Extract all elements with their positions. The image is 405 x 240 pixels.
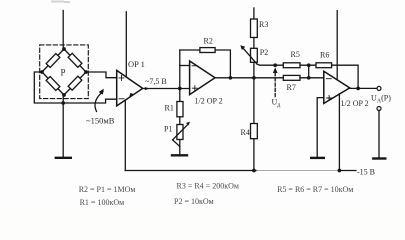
svg-text:R1: R1 bbox=[165, 104, 174, 113]
ground bridge bbox=[56, 157, 71, 159]
svg-text:OP 1: OP 1 bbox=[128, 59, 145, 69]
pin minus OP1 bbox=[119, 98, 124, 100]
pin minus U3 bbox=[326, 78, 331, 80]
arrow curved input adjust near OP1 bbox=[95, 92, 103, 112]
wire lower terminal to ground bbox=[378, 111, 380, 159]
svg-text:R1 = 100кОм: R1 = 100кОм bbox=[80, 198, 125, 207]
arrow P2 wiper bbox=[243, 49, 257, 64]
wire R3 to P2 bbox=[253, 38, 255, 49]
node junction R2 feedback on output bbox=[229, 76, 233, 80]
pin minus U2 bbox=[192, 65, 197, 67]
svg-text:P1: P1 bbox=[164, 125, 172, 134]
terminal output upper bbox=[377, 86, 381, 90]
pin plus OP1 bbox=[119, 75, 124, 80]
wire supply stub above U3 bbox=[336, 11, 338, 80]
wire P1 bottom lead to ground bbox=[179, 140, 181, 155]
wire node-X vertical (R2 left / U2 minus / R1 top) bbox=[179, 50, 181, 102]
arrow on OP1 lower edge bbox=[129, 93, 134, 98]
wire U3 output to terminal bbox=[350, 87, 377, 89]
ground P1 bbox=[172, 154, 187, 156]
bridge P diamond bbox=[42, 49, 86, 95]
resistor R1 bbox=[177, 102, 183, 117]
svg-text:P: P bbox=[61, 68, 66, 78]
wire R1 to P1 bbox=[179, 117, 181, 125]
svg-text:R5: R5 bbox=[291, 50, 300, 59]
wire rail right section bbox=[339, 170, 357, 172]
bridge arm resistor top-right bbox=[68, 53, 82, 67]
wire U3 plus input to ground bbox=[317, 98, 324, 158]
ground output terminal bbox=[373, 157, 385, 159]
resistor R3 bbox=[251, 19, 258, 38]
wire supply stub above R3 bbox=[253, 8, 255, 19]
svg-text:R4: R4 bbox=[241, 128, 250, 137]
bridge arm resistor bottom-right bbox=[68, 76, 82, 90]
node junction P2-R4 column on output bbox=[252, 76, 256, 80]
node junction R6 feedback on output bbox=[356, 87, 360, 91]
node junction R5 R6 bbox=[307, 63, 311, 67]
node bridge bottom vertex bbox=[62, 93, 66, 97]
svg-text:R3: R3 bbox=[259, 20, 268, 29]
node junction R7 minus input bbox=[307, 76, 311, 80]
wire vertical joining R5 node to R7 node bbox=[308, 65, 310, 78]
svg-text:R7: R7 bbox=[287, 83, 296, 92]
op-amp OP1 bbox=[117, 70, 143, 106]
wire stub to U2 minus input bbox=[180, 65, 190, 67]
faint page-top smudge bbox=[52, 1, 69, 4]
wire R7 node to U3 minus input bbox=[300, 77, 324, 79]
wire supply stub above OP1 bbox=[125, 12, 127, 77]
wire P2 bottom lead down through output to R4 bbox=[253, 62, 255, 123]
resistor R7 bbox=[283, 75, 300, 80]
pin plus U3 bbox=[327, 96, 332, 101]
wire supply stub above bridge bbox=[62, 11, 64, 50]
bridge dashed enclosure bbox=[40, 45, 89, 99]
wire R2 right lead and down to output bbox=[215, 50, 230, 78]
svg-text:P2: P2 bbox=[260, 48, 268, 57]
svg-text:1/2 OP 2: 1/2 OP 2 bbox=[341, 99, 369, 108]
wire negative supply rail -15V bbox=[125, 170, 257, 172]
potentiometer P1 bbox=[177, 125, 183, 140]
wire bridge left vertex down and along to OP1 minus input bbox=[34, 72, 116, 103]
arrow U_d measurement dashed bbox=[274, 71, 276, 97]
node bridge left vertex bbox=[40, 70, 44, 74]
node junction R4 on rail bbox=[252, 169, 256, 173]
svg-text:P2 = 10кОм: P2 = 10кОм bbox=[174, 197, 214, 206]
node junction U_d arrow top bbox=[273, 63, 277, 67]
bridge arm resistor bottom-left bbox=[46, 77, 60, 91]
svg-text:R2 = P1 = 1МОм: R2 = P1 = 1МОм bbox=[79, 185, 136, 194]
wire OP1 bottom supply down to rail bbox=[124, 100, 126, 170]
svg-text:1/2 OP 2: 1/2 OP 2 bbox=[195, 97, 223, 106]
wire R4 bottom to rail bbox=[253, 139, 255, 171]
pin plus U2 bbox=[192, 86, 197, 91]
node junction R1 R2 on OP1 output wire bbox=[178, 87, 182, 91]
potentiometer P2 bbox=[251, 48, 258, 62]
op-amp U3 second half OP2 bbox=[324, 71, 350, 103]
resistor R2 bbox=[200, 48, 215, 53]
wire OP1 output to U2 plus input bbox=[143, 88, 190, 90]
wire bridge bottom vertex down to ground bbox=[62, 95, 64, 157]
svg-text:R5 = R6 = R7 = 10кОм: R5 = R6 = R7 = 10кОм bbox=[277, 185, 353, 194]
wire bridge right vertex to OP1 plus input bbox=[86, 72, 117, 78]
wire rail faint middle section bbox=[257, 170, 339, 172]
arrow P1 wiper bbox=[173, 125, 188, 140]
resistor R6 bbox=[316, 63, 332, 68]
arrowhead on OP1 output wire bbox=[145, 87, 150, 90]
bridge arm resistor top-left bbox=[46, 54, 60, 68]
wire P2 wiper to R5 bbox=[257, 64, 283, 65]
svg-text:~150мВ: ~150мВ bbox=[86, 116, 115, 126]
wire R5 to R6 bbox=[300, 64, 316, 66]
terminal output lower bbox=[377, 107, 381, 111]
svg-text:R6: R6 bbox=[320, 50, 329, 59]
node junction bridge bottom on lower wire bbox=[61, 101, 65, 105]
wire R6 right feedback down to output bbox=[332, 65, 359, 88]
op-amp U2 first half OP2 bbox=[190, 61, 215, 95]
node junction U3 supply on rail bbox=[338, 169, 342, 173]
node bridge top vertex bbox=[62, 47, 66, 51]
wire U2 output row to R7 bbox=[215, 77, 283, 79]
svg-text:R2: R2 bbox=[204, 36, 213, 45]
node bridge right vertex bbox=[84, 70, 88, 74]
ground U3 plus input bbox=[311, 157, 324, 159]
wire U3 bottom supply down to rail bbox=[338, 94, 340, 171]
resistor R5 bbox=[283, 63, 300, 68]
wire P1 wiper link to bottom lead bbox=[173, 140, 180, 147]
svg-text:~7,5 В: ~7,5 В bbox=[145, 77, 167, 86]
svg-text:-15 В: -15 В bbox=[357, 168, 375, 177]
resistor R4 bbox=[251, 124, 258, 139]
svg-text:R3 = R4 = 200кОм: R3 = R4 = 200кОм bbox=[177, 181, 239, 190]
wire R2 left lead bbox=[180, 49, 200, 51]
